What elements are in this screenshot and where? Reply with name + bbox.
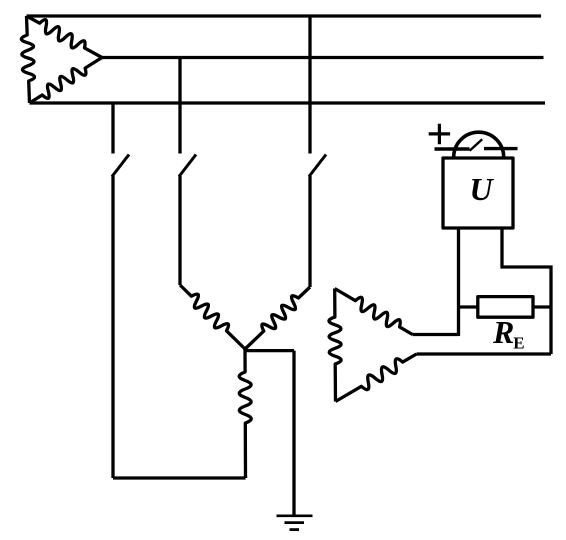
svg-text:U: U (469, 171, 494, 207)
svg-text:E: E (513, 334, 524, 353)
svg-text:R: R (492, 314, 514, 350)
